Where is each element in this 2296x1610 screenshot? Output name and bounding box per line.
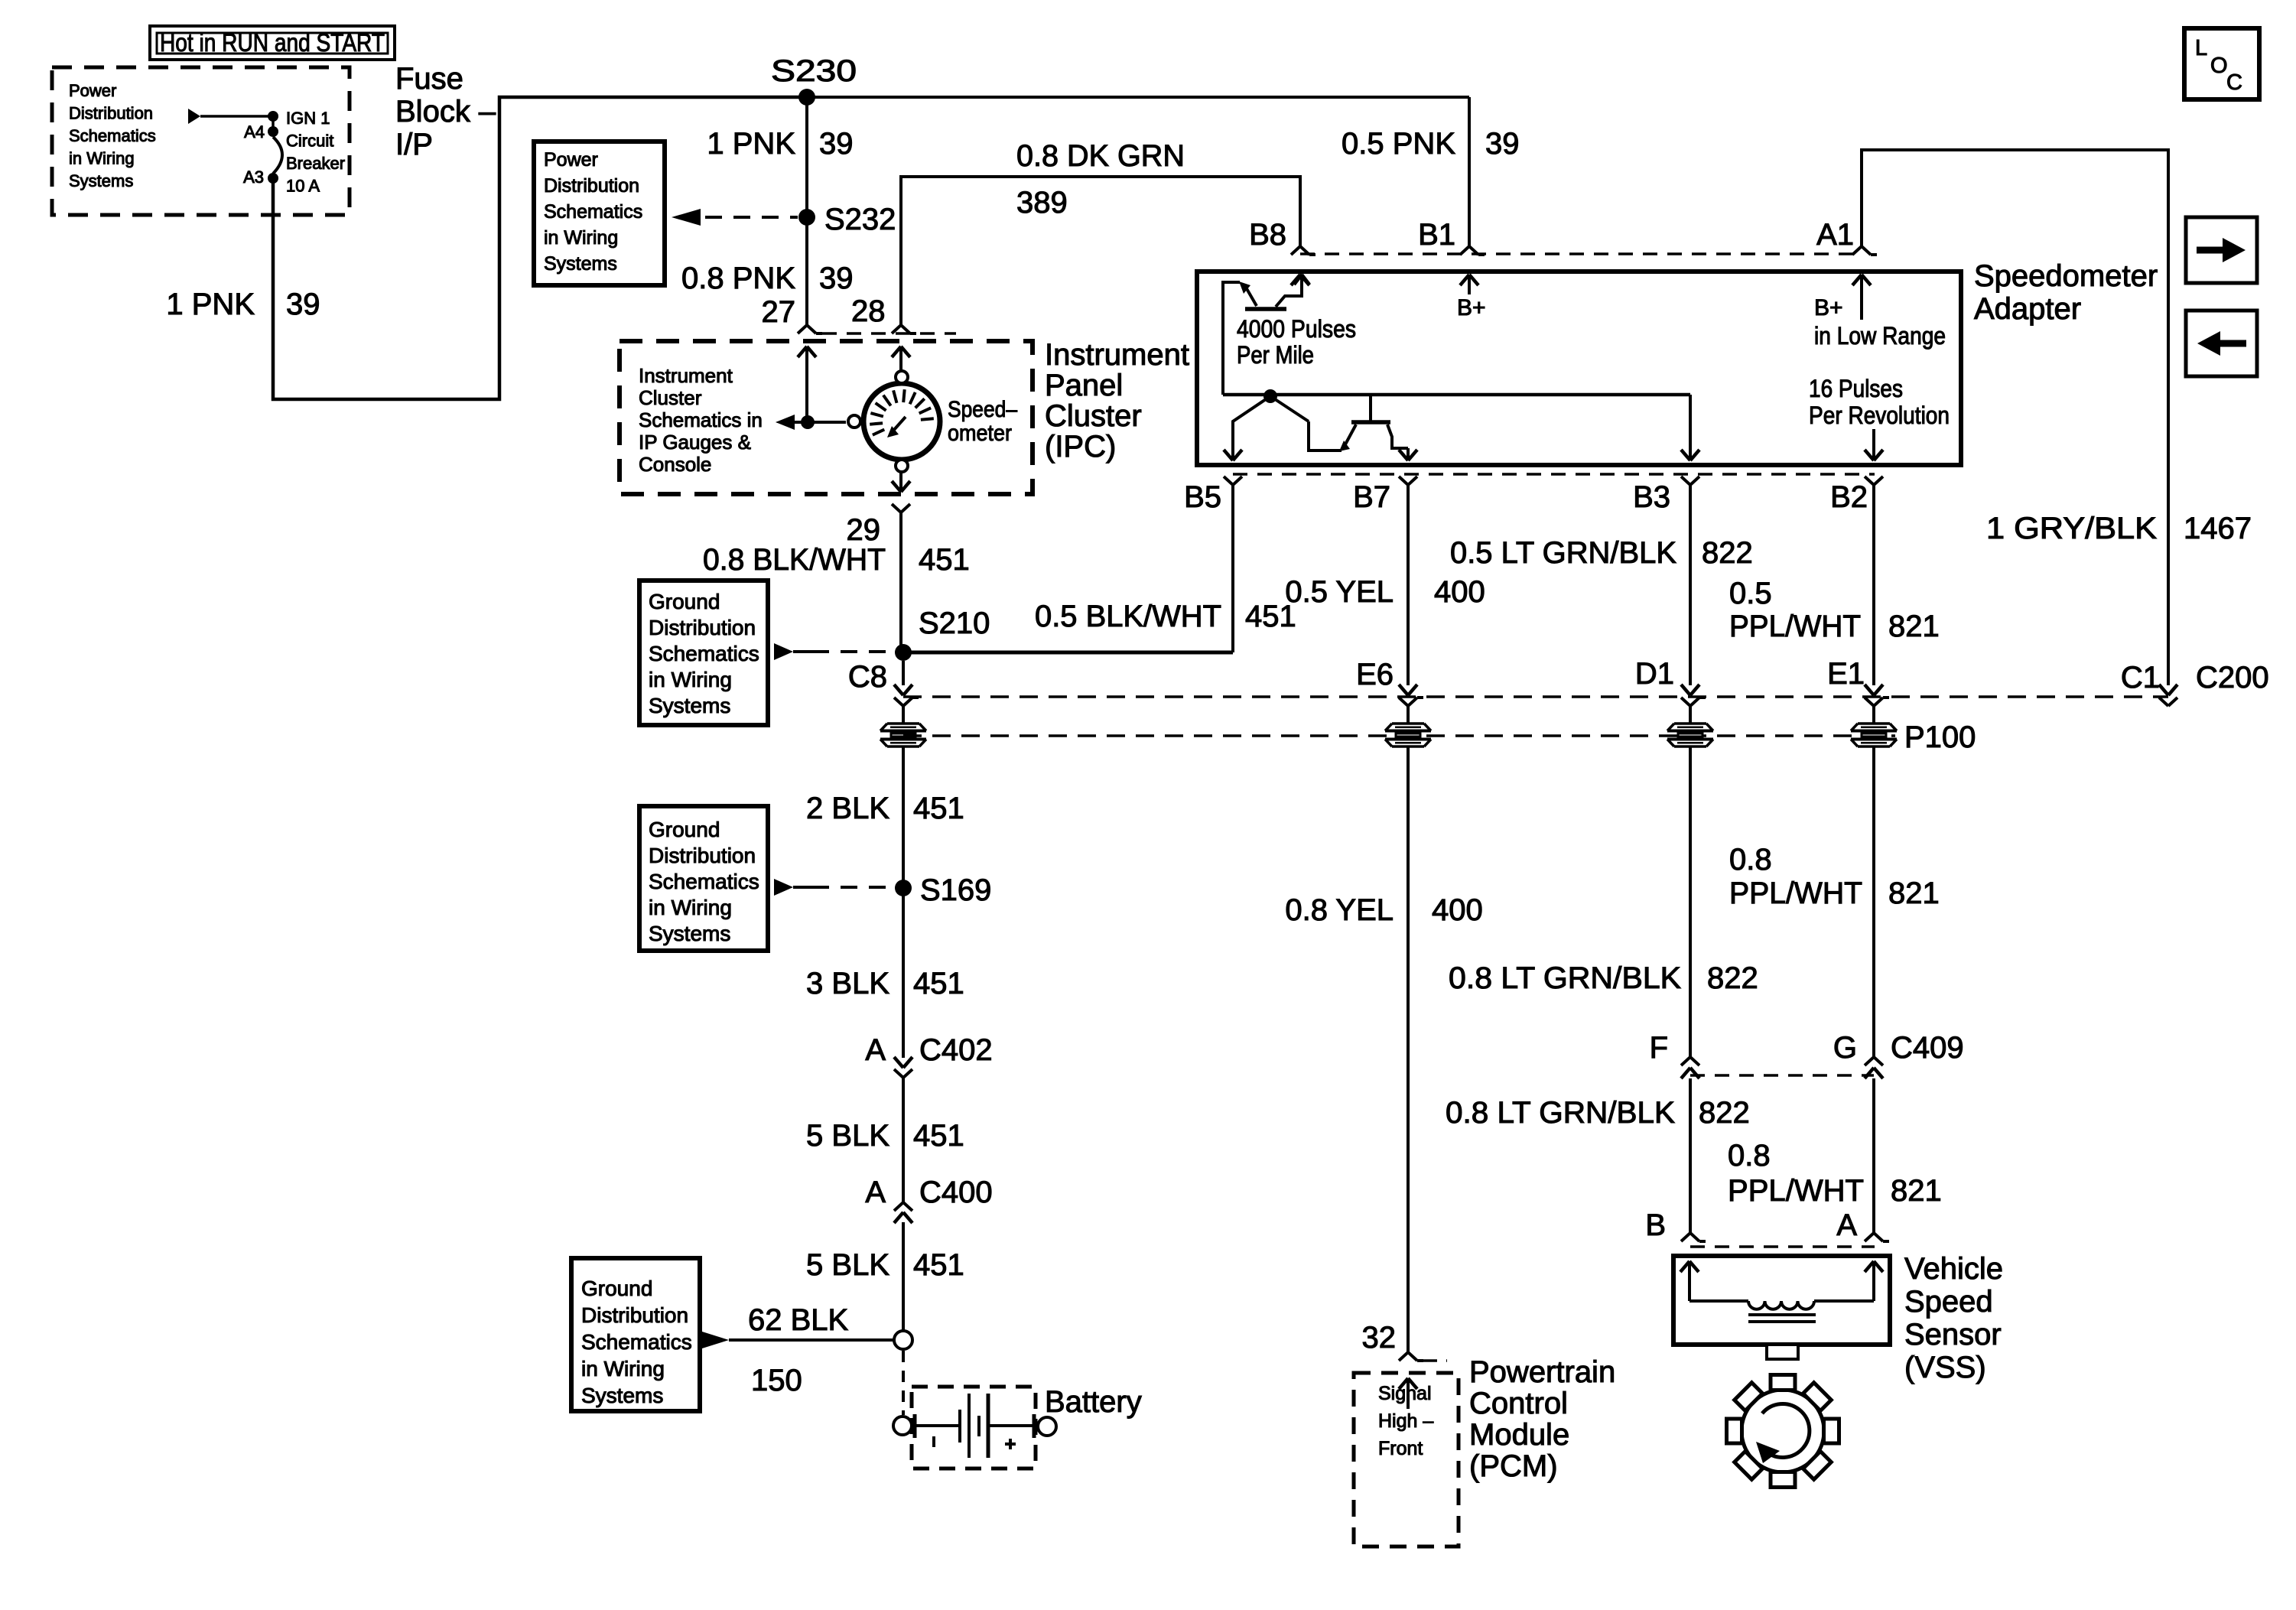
svg-text:39: 39: [286, 288, 320, 321]
speedometer terminal bottom: [896, 460, 908, 472]
VSS coil: [1689, 1299, 1748, 1303]
svg-text:Schematics: Schematics: [69, 126, 156, 145]
splice S232: [798, 209, 815, 226]
svg-text:(IPC): (IPC): [1045, 430, 1116, 463]
svg-text:PPL/WHT: PPL/WHT: [1729, 877, 1862, 910]
svg-text:Block –: Block –: [395, 95, 496, 128]
wire 5 BLK 451 (upper): [902, 1078, 905, 1202]
wire 0.8 PPL/WHT 821 (upper): [1872, 747, 1875, 1057]
svg-text:389: 389: [1016, 186, 1068, 220]
wire 62 BLK 150: [729, 1338, 893, 1342]
navigation box arrow right: [2186, 217, 2257, 283]
svg-text:Ground: Ground: [649, 590, 720, 613]
svg-text:1467: 1467: [2184, 512, 2252, 545]
navigation box arrow left: [2186, 311, 2257, 376]
svg-text:B+: B+: [1457, 295, 1486, 320]
svg-text:2 BLK: 2 BLK: [806, 792, 889, 825]
svg-text:Power: Power: [544, 149, 598, 171]
svg-text:451: 451: [913, 1248, 964, 1282]
svg-text:Cluster: Cluster: [1045, 399, 1142, 433]
arrow to power distribution reference (S232): [672, 209, 701, 226]
rotation arrow inside gear: [1762, 1403, 1810, 1457]
svg-text:C200: C200: [2196, 661, 2269, 694]
node A4: [268, 126, 278, 137]
svg-text:400: 400: [1434, 575, 1485, 609]
VSS core lines: [1748, 1313, 1816, 1316]
svg-text:Adapter: Adapter: [1974, 292, 2081, 326]
battery plus mark: [1005, 1442, 1016, 1446]
pin B5 chevron: [1224, 476, 1233, 485]
svg-text:Front: Front: [1378, 1438, 1423, 1459]
ground distribution reference box 3: [571, 1258, 700, 1411]
svg-text:C409: C409: [1891, 1031, 1964, 1065]
svg-text:32: 32: [1362, 1321, 1397, 1355]
svg-text:39: 39: [1485, 127, 1520, 161]
svg-text:Speed: Speed: [1904, 1285, 1993, 1319]
svg-text:Ground: Ground: [581, 1277, 652, 1300]
svg-text:Systems: Systems: [649, 694, 730, 717]
svg-text:Module: Module: [1469, 1418, 1569, 1452]
svg-text:39: 39: [819, 127, 854, 161]
dashed link to battery: [902, 1351, 905, 1415]
connector pin 28 into IPC: [892, 325, 901, 333]
svg-text:E1: E1: [1827, 657, 1865, 691]
svg-text:Distribution: Distribution: [649, 616, 756, 639]
wire 39 from S230 down to IPC pin 27: [805, 97, 808, 325]
svg-text:B1: B1: [1418, 218, 1455, 252]
wire 2 BLK 451: [902, 747, 905, 888]
arrow from ground reference to S210: [774, 643, 793, 660]
svg-text:IGN 1: IGN 1: [286, 109, 330, 128]
dashed link to S169: [812, 886, 896, 889]
svg-text:P100: P100: [1904, 720, 1976, 754]
svg-text:S169: S169: [920, 873, 991, 907]
svg-text:in Low Range: in Low Range: [1814, 322, 1946, 350]
pin B7 chevron: [1399, 476, 1408, 485]
arrow from power distribution reference: [188, 109, 200, 124]
connector dashed line pins 27-28: [822, 332, 956, 335]
svg-text:C400: C400: [919, 1176, 993, 1209]
svg-text:0.8 DK GRN: 0.8 DK GRN: [1016, 139, 1185, 173]
Powertrain Control Module dashed box: [1354, 1373, 1459, 1547]
connector dashed line C200: [903, 695, 2168, 698]
svg-text:0.5: 0.5: [1729, 577, 1772, 610]
svg-text:1 PNK: 1 PNK: [166, 288, 255, 321]
svg-text:Distribution: Distribution: [69, 104, 153, 123]
arrow to instrument cluster reference: [776, 415, 795, 430]
connector dashed line B8-B1-A1: [1300, 252, 1862, 255]
wire 0.8 YEL 400: [1407, 747, 1410, 1352]
connector dashed line B5-B7-B3-B2: [1233, 473, 1875, 476]
svg-text:A4: A4: [244, 122, 265, 141]
svg-text:O: O: [2210, 54, 2228, 78]
svg-text:821: 821: [1888, 610, 1940, 643]
svg-text:1 GRY/BLK: 1 GRY/BLK: [1986, 512, 2157, 545]
wire 0.5 PNK 39 from S230 to B1: [807, 96, 1469, 99]
speedometer gauge: [863, 383, 940, 460]
svg-text:A: A: [1836, 1208, 1857, 1242]
svg-text:0.8: 0.8: [1728, 1139, 1771, 1173]
connector into PCM: [1399, 1352, 1408, 1361]
svg-text:Instrument: Instrument: [639, 364, 733, 387]
grommet P100 on 400 wire: [1386, 724, 1430, 731]
grommet P100 on 451 wire: [881, 724, 925, 731]
svg-text:Breaker: Breaker: [286, 154, 345, 173]
Instrument Panel Cluster dashed box: [620, 341, 1033, 494]
wire to IGN 1 breaker: [200, 115, 272, 118]
battery minus mark: [932, 1436, 935, 1447]
connector dashed line VSS B-A: [1690, 1245, 1875, 1248]
svg-text:A3: A3: [243, 168, 264, 187]
reluctor gear: [1742, 1390, 1824, 1472]
svg-text:400: 400: [1432, 893, 1483, 927]
internal bus wire of adapter: [1223, 393, 1690, 397]
svg-text:822: 822: [1699, 1096, 1750, 1130]
svg-text:0.5 BLK/WHT: 0.5 BLK/WHT: [1035, 600, 1221, 633]
svg-text:451: 451: [913, 967, 964, 1000]
svg-text:G: G: [1833, 1031, 1857, 1065]
wire 0.8 BLK/WHT 451: [899, 512, 902, 652]
pin B3 internal wire: [1689, 395, 1692, 458]
wire 0.5 PPL/WHT 821: [1872, 485, 1875, 685]
junction node at pin 27 wire: [801, 415, 815, 429]
svg-text:Panel: Panel: [1045, 369, 1123, 402]
svg-text:D1: D1: [1635, 657, 1674, 691]
svg-text:Systems: Systems: [69, 171, 133, 190]
svg-text:L: L: [2195, 36, 2207, 60]
svg-text:5 BLK: 5 BLK: [806, 1119, 889, 1153]
svg-text:S210: S210: [919, 607, 990, 640]
battery terminal right ring: [1038, 1417, 1056, 1436]
svg-text:822: 822: [1702, 536, 1753, 570]
transistor Q1 (4000 pulses per mile): [1223, 282, 1240, 395]
ground distribution reference box 1: [639, 581, 768, 725]
svg-text:(VSS): (VSS): [1904, 1351, 1986, 1384]
svg-text:B3: B3: [1633, 480, 1670, 514]
svg-text:0.5 PNK: 0.5 PNK: [1342, 127, 1455, 161]
svg-text:B8: B8: [1249, 218, 1286, 252]
svg-text:PPL/WHT: PPL/WHT: [1728, 1174, 1864, 1208]
node A3: [268, 173, 278, 184]
svg-text:I/P: I/P: [395, 128, 433, 161]
svg-text:0.8 LT GRN/BLK: 0.8 LT GRN/BLK: [1446, 1096, 1675, 1130]
svg-text:in Wiring: in Wiring: [581, 1357, 665, 1381]
svg-text:Per Revolution: Per Revolution: [1809, 402, 1950, 429]
wire 1 PNK 39 from breaker A3 to S230: [273, 97, 807, 399]
svg-text:3 BLK: 3 BLK: [806, 967, 889, 1000]
svg-text:0.8: 0.8: [1729, 843, 1772, 877]
svg-text:B+: B+: [1814, 295, 1843, 320]
svg-text:A1: A1: [1816, 218, 1854, 252]
VSS mounting stub: [1767, 1345, 1798, 1359]
transistor Q2: [1369, 395, 1372, 421]
svg-text:Battery: Battery: [1045, 1385, 1142, 1419]
svg-text:(PCM): (PCM): [1469, 1449, 1558, 1483]
svg-text:16 Pulses: 16 Pulses: [1809, 375, 1903, 402]
svg-text:4000 Pulses: 4000 Pulses: [1237, 315, 1356, 343]
LOC legend box: [2184, 28, 2259, 99]
svg-text:C402: C402: [919, 1033, 993, 1067]
svg-text:Control: Control: [1469, 1387, 1568, 1420]
svg-text:A: A: [865, 1033, 886, 1067]
connector pin 29 out of IPC: [899, 471, 902, 490]
Vehicle Speed Sensor box: [1673, 1256, 1890, 1345]
VSS pin A internal arrow: [1865, 1261, 1874, 1272]
svg-text:Hot in RUN and START: Hot in RUN and START: [160, 28, 385, 57]
wire 5 BLK 451 (lower): [902, 1222, 905, 1331]
pin B7 internal wire: [1407, 448, 1410, 458]
svg-text:S230: S230: [771, 54, 857, 88]
pin B3 chevron: [1681, 476, 1690, 485]
dashed link S232: [705, 216, 798, 219]
svg-text:B2: B2: [1830, 480, 1868, 514]
svg-text:High –: High –: [1378, 1410, 1433, 1432]
svg-text:Ground: Ground: [649, 818, 720, 841]
svg-text:62 BLK: 62 BLK: [748, 1303, 849, 1337]
svg-text:Schematics: Schematics: [544, 201, 642, 223]
svg-text:0.8 BLK/WHT: 0.8 BLK/WHT: [703, 543, 886, 577]
svg-text:B7: B7: [1353, 480, 1390, 514]
svg-text:Circuit: Circuit: [286, 132, 333, 151]
splice S169: [895, 880, 912, 896]
svg-text:PPL/WHT: PPL/WHT: [1729, 610, 1861, 643]
svg-text:F: F: [1650, 1031, 1668, 1065]
grommet P100 on 822 wire: [1668, 724, 1712, 731]
svg-text:S232: S232: [824, 203, 896, 236]
pin B2 chevron: [1865, 476, 1874, 485]
VSS pin B internal arrow: [1680, 1261, 1689, 1272]
svg-text:Schematics: Schematics: [649, 642, 759, 665]
svg-text:in Wiring: in Wiring: [69, 149, 135, 168]
pin B5 internal wire: [1233, 396, 1270, 458]
svg-text:451: 451: [919, 543, 970, 577]
svg-text:in Wiring: in Wiring: [544, 227, 618, 249]
svg-text:Instrument: Instrument: [1045, 338, 1189, 372]
wire 1 GRY/BLK 1467 from A1 to C1: [1862, 150, 2168, 685]
svg-text:0.5 YEL: 0.5 YEL: [1285, 575, 1394, 609]
speedometer terminal top: [896, 371, 908, 383]
svg-text:0.8 LT GRN/BLK: 0.8 LT GRN/BLK: [1449, 961, 1681, 995]
svg-text:28: 28: [851, 294, 886, 328]
svg-text:Cluster: Cluster: [639, 386, 702, 409]
svg-text:Systems: Systems: [581, 1384, 663, 1407]
svg-text:0.8 YEL: 0.8 YEL: [1285, 893, 1394, 927]
wire 3 BLK 451: [902, 888, 905, 1058]
svg-text:in Wiring: in Wiring: [649, 668, 732, 691]
svg-text:Schematics: Schematics: [581, 1330, 692, 1354]
wire A4 stub: [272, 116, 275, 132]
connector pin 27 into IPC: [798, 325, 807, 333]
dashed line P100: [903, 734, 1895, 737]
svg-text:150: 150: [751, 1364, 802, 1397]
svg-text:Systems: Systems: [649, 922, 730, 945]
battery dashed box: [912, 1387, 1036, 1469]
svg-text:C: C: [2226, 70, 2242, 95]
svg-text:Fuse: Fuse: [395, 62, 463, 96]
arrow from ground reference (62 BLK): [702, 1332, 729, 1348]
ground distribution reference box 2: [639, 806, 768, 951]
grommet P100 on 821 wire: [1852, 724, 1896, 731]
arrow from ground reference to S169: [774, 879, 793, 896]
splice S230: [798, 89, 815, 106]
battery cell symbol: [913, 1414, 917, 1438]
svg-text:C1: C1: [2121, 661, 2160, 694]
svg-text:821: 821: [1888, 877, 1940, 910]
svg-text:Power: Power: [69, 81, 116, 100]
svg-text:1 PNK: 1 PNK: [707, 127, 795, 161]
speedometer needle: [893, 417, 906, 431]
svg-text:Console: Console: [639, 453, 711, 476]
svg-text:Systems: Systems: [544, 253, 617, 275]
svg-text:Signal: Signal: [1378, 1383, 1432, 1404]
junction node on bus: [1263, 389, 1277, 403]
svg-text:Distribution: Distribution: [544, 175, 639, 197]
speedometer terminal left: [848, 415, 860, 428]
svg-text:Speedometer: Speedometer: [1974, 259, 2158, 293]
node IGN 1 feed: [268, 111, 278, 122]
svg-text:0.8 PNK: 0.8 PNK: [681, 262, 795, 295]
wire 0.5 LT GRN/BLK 822: [1689, 485, 1692, 685]
svg-text:5 BLK: 5 BLK: [806, 1248, 889, 1282]
Speedometer Adapter box: [1197, 272, 1961, 465]
pin B2 internal wire: [1872, 429, 1875, 458]
svg-text:A: A: [865, 1176, 886, 1209]
reference box: Power Distribution Schematics in Wiring Systems (dashed): [52, 67, 350, 215]
dashed link to S210: [812, 650, 896, 653]
svg-text:Distribution: Distribution: [581, 1303, 688, 1327]
svg-text:39: 39: [819, 262, 854, 295]
svg-text:Schematics: Schematics: [649, 870, 759, 893]
svg-text:Powertrain: Powertrain: [1469, 1355, 1615, 1389]
svg-text:E6: E6: [1356, 658, 1394, 691]
wire 0.5 YEL 400: [1407, 485, 1410, 685]
svg-text:B: B: [1645, 1208, 1666, 1242]
svg-text:821: 821: [1891, 1174, 1942, 1208]
svg-text:451: 451: [913, 792, 964, 825]
svg-text:29: 29: [847, 513, 881, 547]
svg-text:ometer: ometer: [948, 421, 1012, 446]
wire 0.8 LT GRN/BLK 822 (upper): [1689, 747, 1692, 1057]
connector dashed line C409: [1690, 1074, 1874, 1077]
svg-text:Schematics in: Schematics in: [639, 408, 763, 431]
reference box: Power Distribution Schematics in Wiring Systems (solid): [534, 141, 665, 285]
svg-text:Vehicle: Vehicle: [1904, 1252, 2003, 1286]
svg-text:Per Mile: Per Mile: [1237, 341, 1314, 369]
circuit breaker IGN 1 10 A (arc): [273, 137, 282, 174]
svg-text:822: 822: [1707, 961, 1758, 995]
svg-text:Distribution: Distribution: [649, 844, 756, 867]
wire 0.5 BLK/WHT 451 from S210 to B5: [903, 651, 1233, 655]
svg-text:B5: B5: [1184, 480, 1221, 514]
label box: Hot in RUN and START: [150, 26, 395, 60]
svg-text:27: 27: [762, 295, 796, 329]
svg-text:0.5 LT GRN/BLK: 0.5 LT GRN/BLK: [1450, 536, 1676, 570]
svg-text:in Wiring: in Wiring: [649, 896, 732, 919]
splice S210: [895, 644, 912, 661]
ground terminal ring: [894, 1331, 912, 1349]
svg-text:451: 451: [913, 1119, 964, 1153]
wire to speedometer: [795, 421, 846, 424]
wire 0.8 DK GRN 389 from IPC pin 28 to B8: [901, 177, 1300, 325]
svg-text:C8: C8: [848, 660, 887, 694]
battery terminal left ring: [893, 1416, 912, 1435]
svg-text:Sensor: Sensor: [1904, 1318, 2002, 1351]
svg-text:IP Gauges &: IP Gauges &: [639, 431, 751, 454]
svg-text:Speed–: Speed–: [948, 397, 1017, 422]
svg-text:10 A: 10 A: [286, 177, 320, 196]
